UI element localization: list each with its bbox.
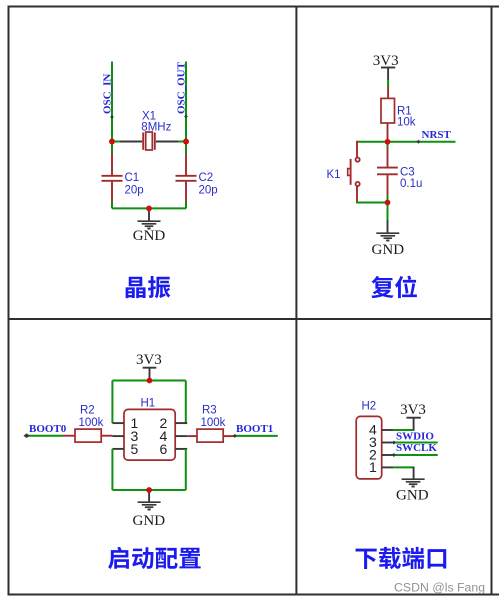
wire node to C3 — [387, 142, 389, 148]
wire OSC_IN vertical — [111, 62, 113, 142]
wire R1 to NRST node — [387, 123, 389, 142]
wire pin6 to bottom rail — [185, 449, 187, 490]
svg-text:1: 1 — [369, 459, 377, 475]
svg-text:C3: C3 — [400, 167, 415, 179]
header H1 pins left — [112, 422, 124, 424]
ground stem top-left — [148, 208, 150, 221]
net anchor dot OSC_OUT — [184, 115, 188, 119]
svg-text:100k: 100k — [201, 417, 226, 429]
resistor R3 — [197, 429, 223, 442]
resistor R2 leads — [63, 435, 75, 437]
header H1 pins right — [175, 422, 187, 424]
capacitor C2 — [185, 154, 187, 175]
title qidongpeizhi — [108, 547, 201, 569]
junction node bottom rail — [146, 487, 152, 493]
svg-text:NRST: NRST — [422, 129, 452, 141]
wire 3V3 to R1 — [387, 80, 389, 88]
wire BOOT1 — [234, 435, 278, 437]
svg-text:X1: X1 — [142, 111, 156, 123]
wire bottom bus — [112, 207, 186, 209]
svg-text:R3: R3 — [202, 405, 217, 417]
wire pin5 to bottom rail — [111, 449, 113, 490]
ground symbol top-right — [376, 232, 399, 234]
svg-text:CSDN @ls Fang: CSDN @ls Fang — [394, 580, 485, 594]
title jingzhen — [126, 276, 171, 298]
net anchor dot BOOT1 — [233, 434, 237, 438]
crystal X1 — [142, 133, 144, 150]
wire switch top branch — [356, 141, 358, 158]
power 3V3 bar top-right — [381, 67, 395, 69]
wire switch bottom branch — [356, 186, 358, 202]
svg-text:8MHz: 8MHz — [141, 122, 171, 134]
svg-text:20p: 20p — [199, 185, 218, 197]
wire node to C1 — [111, 142, 113, 155]
svg-text:C2: C2 — [199, 172, 214, 184]
svg-text:GND: GND — [396, 488, 429, 504]
wire right rail to pin2 — [185, 381, 187, 424]
header H2 pins — [382, 429, 394, 431]
wire bottom rail — [112, 489, 185, 491]
net anchor dot SWDIO — [392, 441, 396, 445]
svg-text:3V3: 3V3 — [400, 402, 426, 418]
svg-text:R2: R2 — [80, 405, 95, 417]
svg-text:0.1u: 0.1u — [400, 178, 422, 190]
junction node bottom of C3 — [385, 200, 391, 206]
wire SWDIO — [393, 442, 437, 444]
capacitor C3 — [387, 148, 389, 167]
wire to ground top-right — [387, 203, 389, 221]
junction node 3V3 rail — [147, 378, 153, 384]
svg-text:H1: H1 — [141, 398, 156, 410]
title xiazaiduankou — [356, 547, 447, 569]
power 3V3 bar bottom-left — [143, 367, 157, 369]
svg-text:10k: 10k — [397, 116, 416, 128]
junction node right — [183, 139, 189, 145]
power 3V3 bar bottom-right — [406, 417, 420, 419]
ground symbol bottom-right — [402, 478, 425, 480]
wire crystal left stub — [112, 141, 122, 143]
svg-text:100k: 100k — [79, 417, 104, 429]
junction node NRST — [385, 139, 391, 145]
net anchor dot SWCLK — [392, 453, 396, 457]
svg-text:GND: GND — [133, 513, 166, 529]
svg-text:BOOT1: BOOT1 — [236, 423, 273, 435]
title fuwei — [371, 276, 417, 299]
svg-text:OSC_OUT: OSC_OUT — [176, 61, 188, 114]
svg-text:H2: H2 — [362, 401, 377, 413]
ground symbol top-left — [138, 220, 161, 222]
svg-text:20p: 20p — [125, 185, 144, 197]
svg-text:OSC_IN: OSC_IN — [102, 74, 114, 114]
net anchor dot NRST — [416, 140, 420, 144]
wire node to C2 — [185, 142, 187, 155]
svg-text:3V3: 3V3 — [136, 352, 162, 368]
net terminal diamond BOOT0 — [23, 433, 29, 438]
ground stem bottom-left — [148, 490, 150, 502]
wire pin4 to 3V3 — [393, 429, 413, 431]
capacitor C1 — [111, 154, 113, 175]
wire SWCLK — [393, 454, 437, 456]
svg-text:SWDIO: SWDIO — [396, 431, 434, 443]
junction node bottom — [146, 206, 152, 212]
svg-text:6: 6 — [160, 441, 168, 457]
header H1 body — [124, 409, 175, 460]
crystal X1 pins — [120, 141, 142, 143]
svg-text:GND: GND — [372, 242, 405, 258]
ground symbol bottom-left — [138, 501, 161, 503]
svg-text:K1: K1 — [327, 169, 341, 181]
wire NRST horizontal — [357, 141, 456, 143]
svg-text:GND: GND — [133, 228, 166, 244]
junction node left — [109, 139, 115, 145]
header H2 body — [356, 416, 382, 479]
wire OSC_OUT vertical — [185, 62, 187, 142]
wire left rail to pin1 — [111, 381, 113, 424]
wire top rail — [112, 380, 185, 382]
resistor R1 — [381, 98, 395, 123]
resistor R3 leads — [187, 435, 197, 437]
svg-text:BOOT0: BOOT0 — [29, 423, 67, 435]
wire pin1 to ground — [393, 466, 413, 468]
switch K1 — [356, 158, 360, 162]
svg-text:SWCLK: SWCLK — [396, 442, 437, 454]
svg-text:C1: C1 — [125, 172, 140, 184]
resistor R2 — [75, 429, 101, 442]
net anchor dot OSC_IN — [110, 115, 114, 119]
svg-text:5: 5 — [131, 441, 139, 457]
wire crystal right stub — [177, 141, 187, 143]
wire BOOT0 — [28, 435, 64, 437]
